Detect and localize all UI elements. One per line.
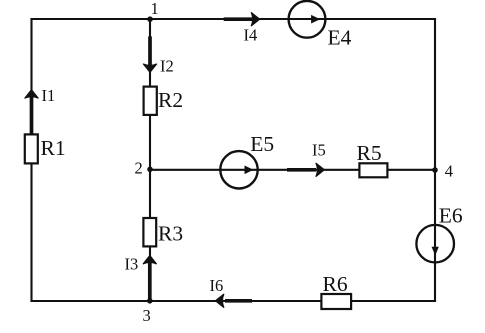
svg-text:R3: R3: [158, 222, 183, 246]
wire bottom (node3 run): [32, 300, 436, 302]
resistor R6: [321, 272, 351, 309]
svg-text:E5: E5: [250, 132, 274, 156]
current arrow I6: [210, 276, 253, 308]
svg-text:R6: R6: [323, 272, 348, 296]
svg-text:I3: I3: [125, 254, 139, 273]
svg-text:4: 4: [445, 162, 453, 181]
current arrow I5: [287, 141, 326, 177]
resistor R2: [144, 87, 183, 115]
current arrow I3: [125, 254, 157, 299]
svg-text:I5: I5: [312, 141, 326, 160]
svg-text:I6: I6: [210, 276, 224, 295]
wire left side (R1 branch): [30, 19, 32, 301]
current arrow I1: [25, 86, 56, 134]
svg-text:R1: R1: [41, 136, 66, 160]
source E4: [289, 1, 352, 49]
svg-text:I2: I2: [160, 57, 174, 76]
node 3 (junction dot + label): [143, 298, 153, 325]
svg-text:E4: E4: [328, 25, 352, 49]
resistor R1: [25, 134, 66, 163]
svg-text:R2: R2: [158, 88, 183, 112]
current arrow I4: [224, 12, 260, 44]
wire right side (node4-E6 branch): [434, 19, 436, 301]
resistor R3: [143, 218, 183, 246]
svg-text:2: 2: [135, 158, 143, 177]
resistor R5: [357, 141, 388, 177]
current arrow I2: [143, 36, 174, 75]
node 4 (junction dot + label): [432, 162, 453, 181]
source E6: [416, 203, 463, 262]
node 1 (junction dot + label): [147, 0, 159, 22]
wire top (node1 run, left corner to right corner): [32, 18, 436, 20]
svg-text:I4: I4: [244, 25, 258, 44]
svg-text:I1: I1: [42, 86, 56, 105]
svg-text:1: 1: [151, 0, 159, 18]
wire middle horizontal (node2 to node4): [150, 169, 435, 171]
svg-text:R5: R5: [357, 141, 382, 165]
svg-text:3: 3: [143, 306, 151, 325]
wire middle vertical (R2-R3 branch): [149, 19, 151, 301]
source E5: [220, 132, 274, 189]
svg-text:E6: E6: [439, 203, 463, 227]
node 2 (junction dot + label): [135, 158, 153, 177]
